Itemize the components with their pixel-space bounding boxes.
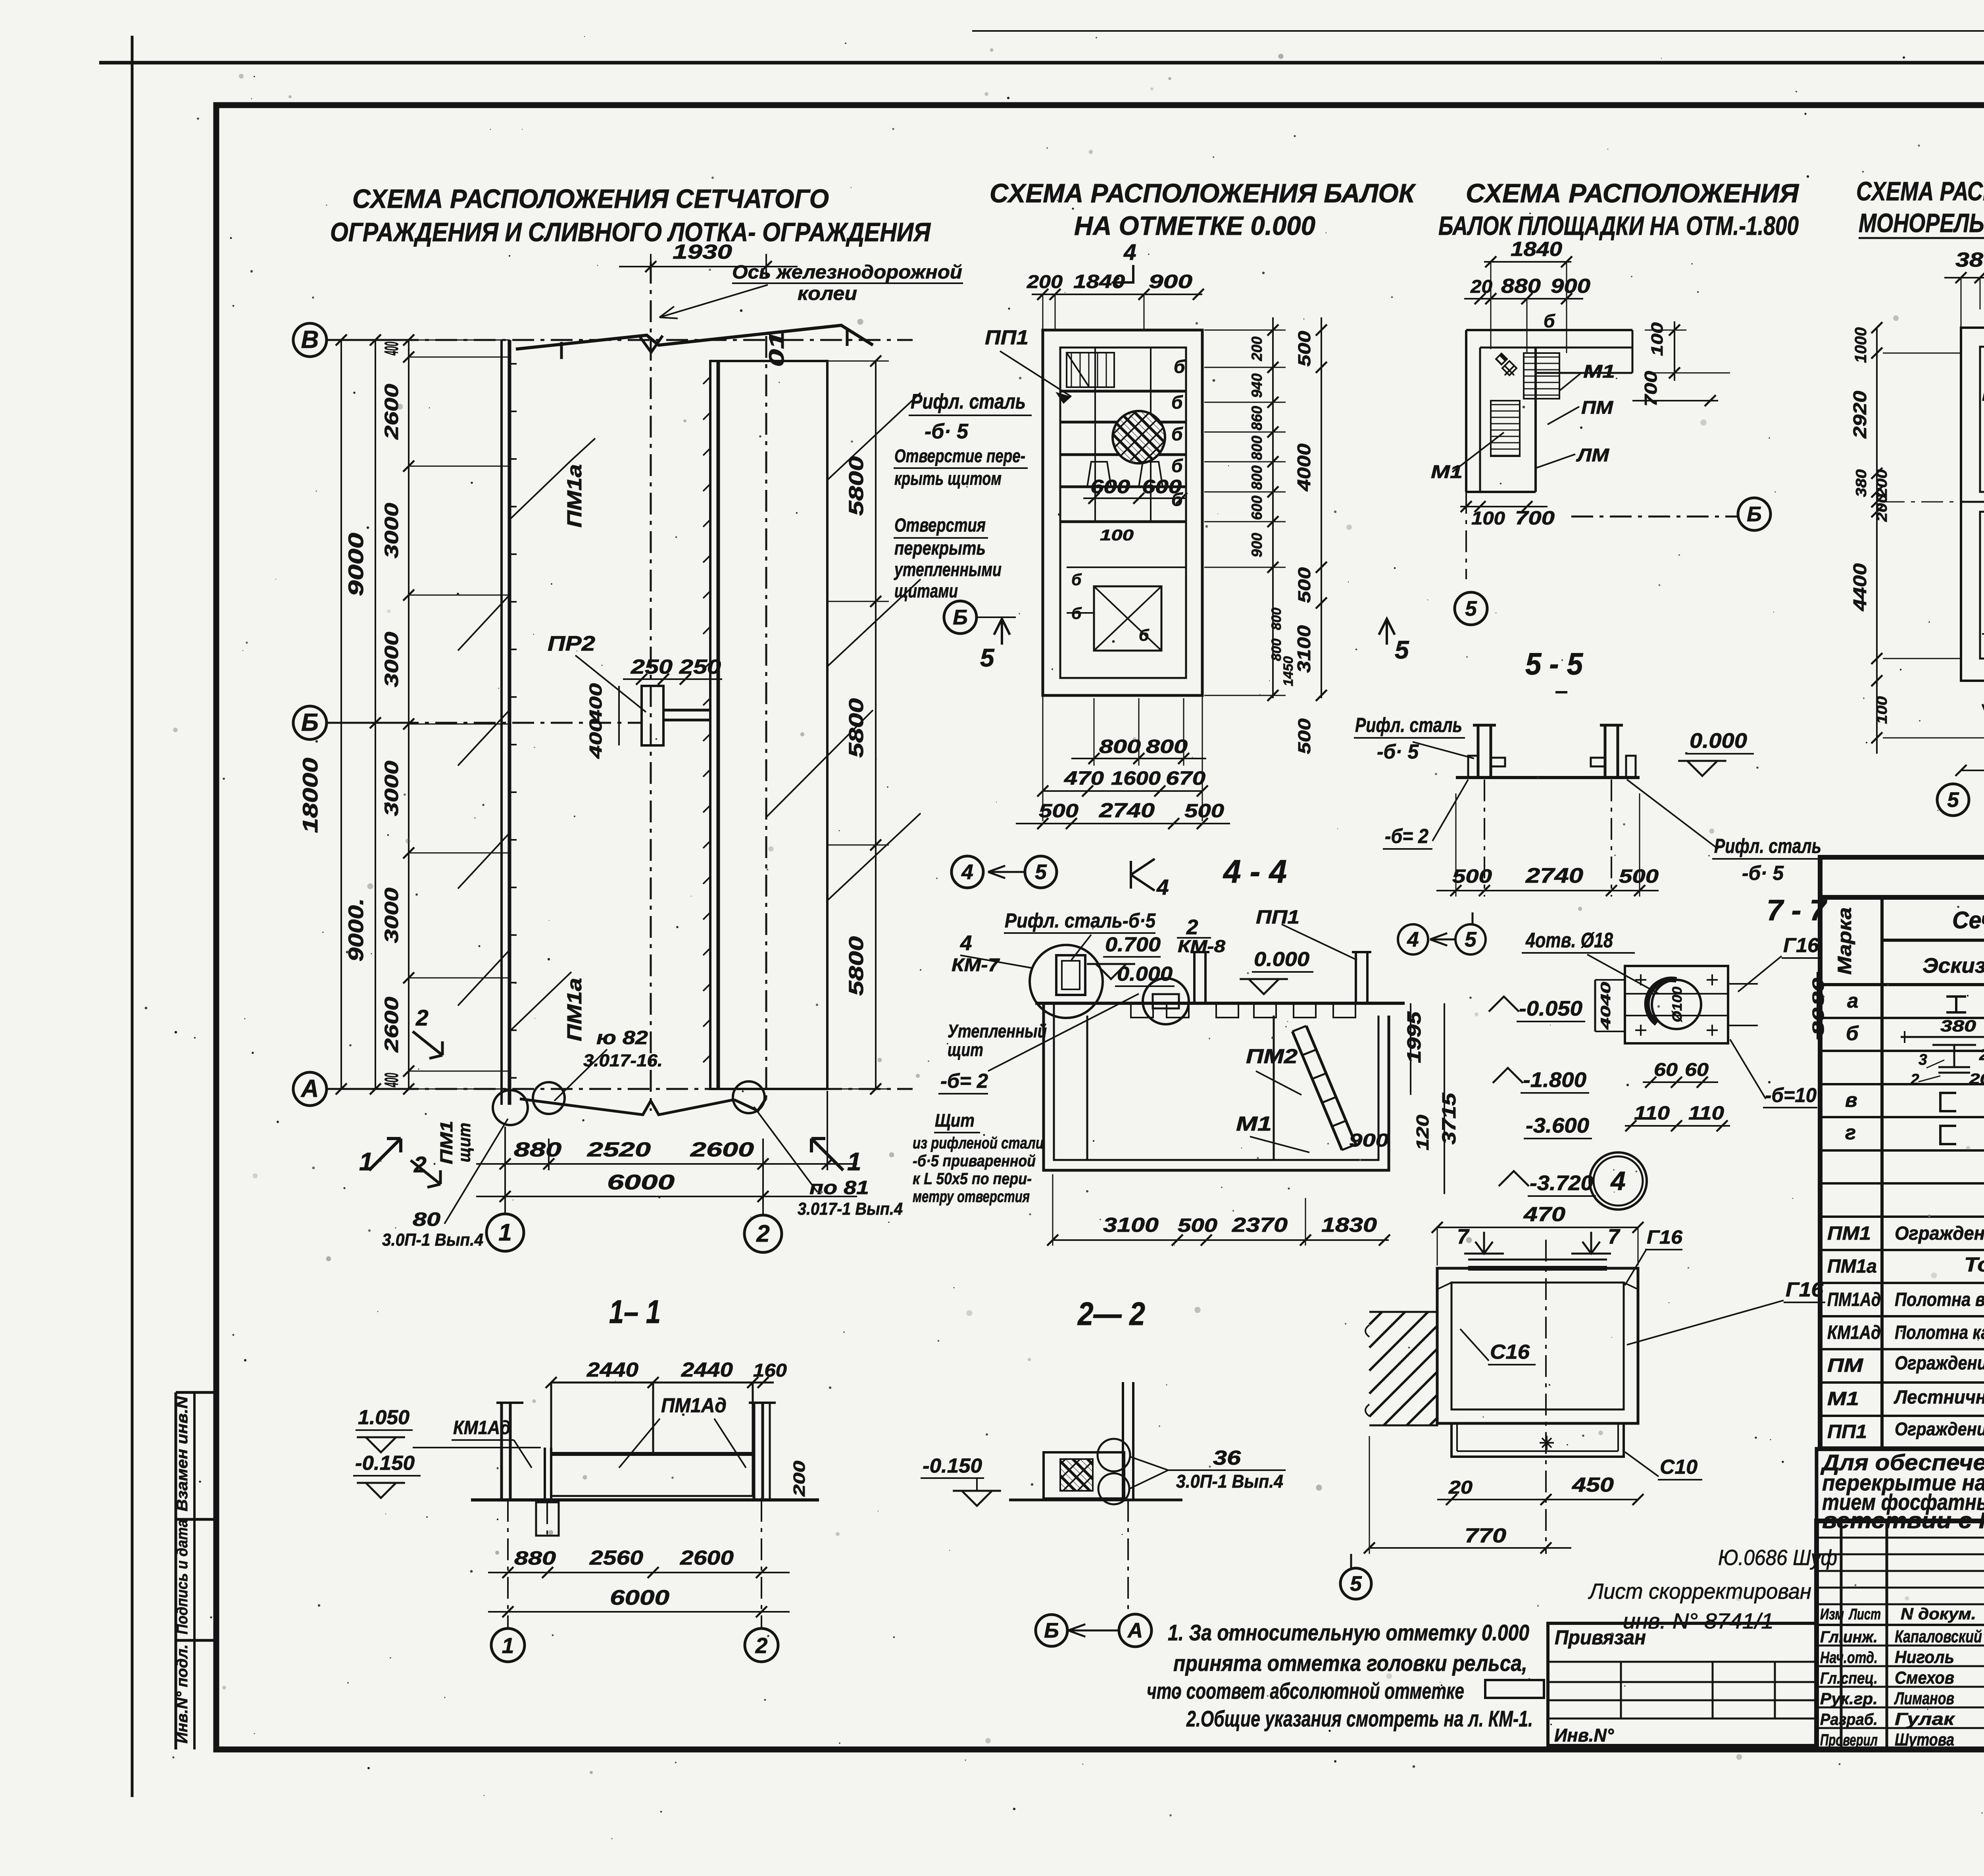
svg-text:200: 200 [1874, 494, 1890, 522]
svg-text:-б· 5: -б· 5 [1742, 862, 1784, 884]
floor line [1456, 776, 1640, 779]
svg-text:100: 100 [1874, 696, 1890, 724]
svg-text:1: 1 [502, 1633, 514, 1658]
svg-text:Эскиз: Эскиз [1922, 954, 1984, 977]
svg-text:СХЕМА РАСПОЛОЖЕНИЯ: СХЕМА РАСПОЛОЖЕНИЯ [1466, 179, 1799, 208]
svg-text:0.000: 0.000 [1690, 729, 1747, 753]
floor plate diamond [1502, 361, 1517, 375]
svg-text:670: 670 [1166, 768, 1205, 789]
section mark 2 upper [413, 1031, 442, 1058]
svg-text:ПМ1: ПМ1 [437, 1121, 456, 1164]
svg-text:Рифл. сталь: Рифл. сталь [1714, 835, 1821, 857]
svg-text:в: в [1845, 1089, 1857, 1111]
svg-text:2: 2 [413, 1152, 427, 1177]
svg-text:200: 200 [1027, 271, 1063, 292]
svg-text:110: 110 [1688, 1103, 1724, 1124]
svg-text:Шутова: Шутова [1895, 1730, 1954, 1749]
svg-text:200: 200 [790, 1461, 808, 1497]
svg-text:880: 880 [514, 1548, 556, 1569]
svg-text:450: 450 [1572, 1473, 1614, 1496]
svg-text:400: 400 [381, 342, 402, 355]
svg-text:1– 1: 1– 1 [609, 1293, 661, 1330]
small supports under opening [1087, 462, 1111, 487]
drawing frame [216, 105, 1984, 1749]
svg-text:Смехов: Смехов [1895, 1668, 1954, 1688]
svg-text:б: б [1544, 311, 1555, 331]
mesh fence line [500, 340, 503, 1105]
svg-text:2: 2 [756, 1220, 769, 1247]
svg-text:7: 7 [1457, 1225, 1470, 1248]
svg-text:-0.150: -0.150 [355, 1452, 415, 1474]
svg-text:ПП1: ПП1 [1827, 1421, 1867, 1442]
section 4-4 floor line [1035, 1002, 1405, 1005]
svg-text:Б: Б [1747, 503, 1762, 526]
svg-text:500: 500 [1619, 866, 1659, 887]
svg-text:2: 2 [415, 1005, 429, 1031]
svg-text:Г16: Г16 [1647, 1227, 1682, 1248]
svg-text:500: 500 [1295, 330, 1314, 367]
svg-text:60: 60 [1685, 1059, 1709, 1080]
section 2-2 post [1122, 1382, 1124, 1500]
svg-text:НА ОТМЕТКЕ 0.000: НА ОТМЕТКЕ 0.000 [1074, 211, 1315, 241]
svg-text:880: 880 [1501, 275, 1541, 297]
svg-text:4отв. Ø18: 4отв. Ø18 [1525, 929, 1613, 952]
circle 5 [1937, 784, 1969, 816]
small x mark [1540, 1436, 1554, 1450]
svg-text:2920: 2920 [1849, 391, 1870, 439]
svg-text:ОГРАЖДЕНИЯ И СЛИВНОГО ЛОТКА- О: ОГРАЖДЕНИЯ И СЛИВНОГО ЛОТКА- ОГРАЖДЕНИЯ [330, 217, 931, 247]
sketch in eskiz column [1901, 1036, 1984, 1038]
detail circle КМ-7 [1030, 945, 1103, 1018]
svg-text:Ограждение лестничного марша: Ограждение лестничного марша [1895, 1353, 1984, 1374]
axis 01 [765, 336, 767, 1098]
svg-text:Полотна ворот по серии 3.017: Полотна ворот по серии 3.017-1 вып.5; по… [1895, 1289, 1984, 1310]
svg-text:ПМ: ПМ [1827, 1355, 1863, 1376]
svg-text:0.000: 0.000 [1254, 948, 1309, 970]
svg-text:-3.600: -3.600 [1526, 1114, 1589, 1137]
svg-text:2440: 2440 [586, 1358, 638, 1381]
svg-text:500: 500 [1178, 1215, 1217, 1236]
svg-text:Инв.N° подл.: Инв.N° подл. [174, 1644, 191, 1744]
dim chain 9000+9000 [375, 340, 376, 1089]
svg-text:утепленными: утепленными [894, 559, 1002, 580]
svg-text:1830: 1830 [1321, 1214, 1377, 1236]
svg-text:Отверстие пере-: Отверстие пере- [894, 445, 1025, 466]
svg-text:Капаловский: Капаловский [1895, 1627, 1982, 1646]
svg-text:КМ-8: КМ-8 [1982, 386, 1984, 404]
svg-text:Отверстия: Отверстия [894, 515, 986, 536]
left base detail [1468, 756, 1478, 778]
svg-text:БАЛОК ПЛОЩАДКИ НА ОТМ.-1.80: БАЛОК ПЛОЩАДКИ НА ОТМ.-1.800 [1438, 211, 1799, 241]
svg-text:ПП1: ПП1 [1256, 907, 1300, 928]
svg-text:ПР2: ПР2 [548, 632, 595, 655]
svg-text:Привязан: Привязан [1555, 1626, 1646, 1649]
ПР2 detail [642, 686, 663, 745]
svg-text:110: 110 [1634, 1103, 1670, 1124]
svg-text:3000: 3000 [381, 632, 402, 687]
svg-text:600: 600 [1249, 495, 1265, 520]
svg-text:400: 400 [586, 718, 606, 759]
svg-text:100: 100 [1100, 527, 1134, 544]
svg-text:б: б [1171, 424, 1183, 444]
svg-text:5800: 5800 [845, 698, 867, 758]
bottom dims 880 2560 2600 [488, 1572, 790, 1573]
svg-text:М1: М1 [1583, 361, 1615, 382]
detail circle 2 [1143, 978, 1189, 1024]
plan outline [1961, 328, 1984, 681]
svg-text:2: 2 [1979, 1046, 1984, 1064]
circle 5 [1455, 592, 1487, 625]
svg-text:Нач.отд.: Нач.отд. [1820, 1648, 1878, 1667]
svg-text:МОНОРЕЛЬСА В НАСОСНОЙ: МОНОРЕЛЬСА В НАСОСНОЙ [1859, 208, 1984, 238]
svg-text:Утепленный: Утепленный [948, 1021, 1047, 1041]
column circle 1 [504, 1180, 506, 1214]
svg-text:1450: 1450 [1281, 656, 1296, 686]
svg-text:5: 5 [1465, 928, 1477, 951]
svg-text:4: 4 [1156, 875, 1169, 899]
beams grid [1060, 390, 1186, 393]
trough diagonals leaders [827, 393, 921, 480]
svg-text:-3.720: -3.720 [1530, 1171, 1593, 1195]
svg-text:Лестничный марш МЛХШ 60-18.: Лестничный марш МЛХШ 60-18.6 [1894, 1387, 1984, 1408]
svg-text:5 - 5: 5 - 5 [1525, 646, 1584, 681]
svg-text:3100: 3100 [1103, 1214, 1159, 1236]
svg-text:То же: То же [1964, 1253, 1984, 1276]
big circle 4 [1590, 1152, 1647, 1210]
svg-text:ПМ1Ад: ПМ1Ад [1827, 1289, 1881, 1310]
stairs in plan [1524, 353, 1559, 399]
svg-text:2.Общие указания смотреть н: 2.Общие указания смотреть на л. КМ-1. [1186, 1706, 1533, 1732]
bottom dims 880/2520/2600 [504, 1127, 506, 1180]
svg-text:Б: Б [301, 709, 319, 736]
svg-text:2: 2 [755, 1633, 768, 1658]
plan L-shape [1466, 329, 1632, 331]
pit walls [1044, 1003, 1389, 1170]
circle Б with 5 mark (left of plan 0.000) [944, 601, 977, 634]
svg-text:2520: 2520 [587, 1138, 651, 1161]
svg-text:1600: 1600 [1111, 768, 1161, 789]
svg-text:Рук.гр.: Рук.гр. [1820, 1690, 1878, 1708]
svg-text:2: 2 [1186, 916, 1198, 939]
svg-text:Инв.N°: Инв.N° [1554, 1725, 1614, 1745]
svg-text:800: 800 [1269, 608, 1284, 630]
svg-text:ПМ1а: ПМ1а [563, 464, 586, 528]
wavy breaks on wall [1365, 1325, 1369, 1416]
svg-text:А: А [300, 1075, 319, 1102]
svg-text:Сечение: Сечение [1952, 907, 1984, 933]
ground line [471, 1498, 819, 1502]
svg-text:Ограждение площадки по серии: Ограждение площадки по серии 1.450.3-3.8… [1895, 1419, 1984, 1439]
svg-text:0.000: 0.000 [1117, 962, 1173, 985]
dim chain 400/2600/3000 [408, 340, 409, 1089]
svg-text:100: 100 [1648, 322, 1666, 356]
svg-text:Рифл. сталь: Рифл. сталь [911, 390, 1026, 413]
svg-text:В: В [301, 326, 319, 353]
svg-text:б: б [1171, 455, 1183, 476]
svg-text:2600: 2600 [381, 384, 402, 440]
section mark 2 lower [411, 1160, 440, 1187]
svg-text:60: 60 [1654, 1059, 1678, 1080]
svg-text:КМ1Ад: КМ1Ад [453, 1417, 511, 1438]
svg-text:400: 400 [586, 683, 606, 723]
svg-text:-0.150: -0.150 [923, 1454, 982, 1477]
svg-text:ПМ1а: ПМ1а [563, 978, 586, 1041]
bottom dims 500 2740 500 [1455, 793, 1457, 897]
svg-text:9000: 9000 [344, 533, 368, 596]
svg-text:Г16: Г16 [1783, 934, 1819, 956]
svg-text:800: 800 [1146, 736, 1188, 757]
left margin strip [175, 1392, 177, 1749]
svg-text:36: 36 [1213, 1446, 1241, 1469]
slivnoy lotok (trough) right tall structure [710, 361, 827, 1089]
svg-text:7: 7 [1608, 1225, 1621, 1248]
svg-text:900: 900 [1149, 271, 1192, 292]
bolt crosses [1635, 974, 1646, 985]
svg-text:500: 500 [1295, 567, 1314, 603]
svg-text:5: 5 [1947, 788, 1959, 812]
svg-text:2560: 2560 [589, 1546, 643, 1569]
svg-text:Б: Б [953, 606, 968, 629]
svg-text:5: 5 [1465, 597, 1477, 620]
fence band [551, 1452, 753, 1456]
svg-text:5: 5 [1395, 636, 1409, 664]
bottom tray [1451, 1423, 1624, 1457]
svg-text:-б=10: -б=10 [1765, 1084, 1817, 1106]
svg-text:СХЕМА РАСПОЛОЖЕНИЯ СЕТЧАТОГО: СХЕМА РАСПОЛОЖЕНИЯ СЕТЧАТОГО [352, 184, 829, 214]
bottom dims 3100/500/2370/1830 [1053, 1239, 1389, 1241]
svg-text:0.700: 0.700 [1105, 933, 1161, 956]
left post pair КМ1Ад [500, 1403, 503, 1498]
duct outer square [1437, 1268, 1638, 1423]
svg-text:3000: 3000 [381, 887, 402, 943]
svg-text:б: б [1071, 604, 1082, 622]
svg-text:20: 20 [1448, 1477, 1473, 1498]
svg-text:3: 3 [1919, 1051, 1927, 1068]
svg-text:2600: 2600 [690, 1138, 754, 1161]
svg-text:2600: 2600 [680, 1546, 734, 1569]
fence gates at bottom [493, 1090, 528, 1125]
hatch diamond symbol [1496, 353, 1507, 365]
svg-text:Лист: Лист [1848, 1606, 1881, 1623]
svg-text:что соответ абсолютной отме: что соответ абсолютной отметке [1147, 1678, 1464, 1704]
svg-text:Марка: Марка [1834, 907, 1855, 975]
svg-text:500: 500 [1295, 718, 1314, 754]
svg-text:Изм: Изм [1820, 1606, 1844, 1623]
dim chain 18000 [340, 340, 342, 1089]
svg-text:2: 2 [1910, 1071, 1919, 1088]
7 section arrows [1464, 1232, 1504, 1254]
svg-text:Б: Б [1044, 1619, 1059, 1642]
svg-text:Рифл. сталь: Рифл. сталь [1355, 714, 1462, 736]
fire note box [1817, 1449, 1984, 1521]
svg-text:М1: М1 [1236, 1112, 1272, 1135]
svg-text:40: 40 [1598, 982, 1613, 1006]
svg-text:ЛМ: ЛМ [1576, 445, 1610, 465]
svg-text:3.017-1 Вып.4: 3.017-1 Вып.4 [798, 1199, 903, 1219]
svg-text:Лиманов: Лиманов [1894, 1689, 1954, 1708]
sheet trim border [131, 36, 134, 1797]
svg-text:3.0П-1 Вып.4: 3.0П-1 Вып.4 [382, 1230, 483, 1250]
svg-text:2740: 2740 [1525, 864, 1583, 887]
svg-text:6000: 6000 [607, 1171, 675, 1194]
right post pair [753, 1403, 756, 1498]
svg-text:2370: 2370 [1232, 1214, 1288, 1236]
svg-text:120: 120 [1413, 1114, 1432, 1150]
svg-text:2600: 2600 [381, 997, 402, 1053]
svg-text:Подпись и дата: Подпись и дата [174, 1519, 191, 1634]
svg-text:5: 5 [1350, 1572, 1362, 1596]
svg-text:а: а [1847, 989, 1858, 1012]
svg-text:ю 82: ю 82 [596, 1027, 648, 1048]
svg-text:500: 500 [1452, 866, 1492, 887]
svg-text:метру отверстия: метру отверстия [913, 1187, 1030, 1206]
svg-text:М1: М1 [1431, 461, 1463, 482]
svg-text:г: г [1845, 1121, 1856, 1144]
svg-text:5800: 5800 [845, 456, 867, 516]
svg-text:-1.800: -1.800 [1523, 1068, 1586, 1092]
railway V mark [640, 336, 663, 352]
svg-text:Гл.инж.: Гл.инж. [1820, 1628, 1878, 1646]
svg-text:1930: 1930 [673, 240, 732, 263]
svg-text:Ю.0686 Шуф: Ю.0686 Шуф [1718, 1545, 1837, 1570]
dash-dot to circle Б [1571, 516, 1738, 518]
svg-text:б: б [1139, 626, 1150, 644]
section mark 1 left [369, 1139, 401, 1170]
svg-text:б: б [1071, 570, 1082, 589]
svg-text:80: 80 [413, 1209, 440, 1230]
dim 5800 column right [875, 361, 877, 1089]
svg-text:по 81: по 81 [809, 1177, 869, 1198]
svg-text:б: б [1846, 1022, 1859, 1045]
svg-text:КМ1Ад: КМ1Ад [1827, 1322, 1881, 1343]
svg-text:-б· 5: -б· 5 [925, 420, 969, 443]
grid line А [293, 1072, 327, 1106]
svg-text:б: б [1171, 392, 1183, 413]
svg-text:470: 470 [1064, 768, 1104, 789]
svg-text:1: 1 [847, 1147, 861, 1176]
svg-text:б: б [1174, 356, 1186, 377]
circles 4,5 above section [1398, 924, 1428, 954]
svg-text:900: 900 [1249, 533, 1265, 557]
svg-text:2440: 2440 [681, 1358, 733, 1381]
section 5-5 left column [1477, 725, 1480, 778]
svg-text:5: 5 [980, 643, 995, 672]
svg-text:3100: 3100 [1294, 625, 1314, 673]
svg-text:щит: щит [455, 1123, 474, 1162]
svg-text:4: 4 [960, 931, 972, 955]
7-7 plate [1625, 966, 1728, 1043]
svg-text:1995: 1995 [1404, 1011, 1425, 1063]
svg-text:200: 200 [1969, 1071, 1984, 1087]
stair top-left [1067, 353, 1114, 387]
svg-text:Ограждение предприятия по се: Ограждение предприятия по серии 3.017-1 … [1895, 1223, 1984, 1244]
svg-text:500: 500 [1039, 801, 1079, 822]
posts on 4-4 floor [1193, 952, 1196, 1003]
2-2 panel with hatch [1044, 1452, 1124, 1499]
svg-text:600: 600 [1090, 476, 1130, 497]
svg-text:4: 4 [1610, 1166, 1625, 1196]
svg-text:Полотна калитки по серии 3.: Полотна калитки по серии 3.017-1 вып.5; … [1895, 1322, 1984, 1343]
svg-text:800: 800 [1249, 436, 1265, 460]
svg-text:колеи: колеи [798, 283, 857, 304]
title block outer [1817, 1521, 1984, 1749]
svg-text:4: 4 [961, 860, 973, 884]
roof-like top chord [516, 325, 873, 349]
svg-text:770: 770 [1465, 1524, 1506, 1547]
circles 1 2 [491, 1628, 525, 1662]
svg-text:щитами: щитами [894, 581, 958, 602]
fence upper rails [550, 1383, 552, 1454]
left dim chain [1876, 328, 1878, 754]
circles Б-А bottom [1036, 1615, 1067, 1646]
circles 4,5 bottom of plan [952, 856, 983, 888]
svg-text:-б·5 приваренной: -б·5 приваренной [913, 1152, 1036, 1170]
svg-text:1: 1 [359, 1147, 373, 1176]
svg-text:крыть щитом: крыть щитом [894, 468, 1002, 489]
svg-text:из рифленой стали: из рифленой стали [913, 1134, 1044, 1152]
svg-text:800: 800 [1249, 465, 1265, 490]
svg-text:200: 200 [1874, 469, 1890, 498]
svg-text:-б= 2: -б= 2 [940, 1070, 988, 1092]
lower pit with X bracing [1094, 586, 1161, 651]
svg-text:С16: С16 [1490, 1340, 1530, 1363]
svg-text:Щит: Щит [935, 1110, 975, 1131]
svg-text:600: 600 [1142, 476, 1182, 497]
svg-text:Лист скорректирован: Лист скорректирован [1588, 1579, 1811, 1603]
svg-text:Гулак: Гулак [1895, 1709, 1955, 1729]
svg-text:ПМ1Ад: ПМ1Ад [661, 1394, 727, 1417]
svg-text:ПМ2: ПМ2 [1246, 1045, 1298, 1068]
label ПМ1а bottom [509, 972, 571, 1031]
svg-text:Ниголь: Ниголь [1895, 1648, 1954, 1667]
svg-text:Взамен инв.N: Взамен инв.N [174, 1396, 191, 1511]
circle 5 under duct [1340, 1568, 1371, 1599]
svg-text:6000: 6000 [610, 1586, 669, 1609]
right column [1604, 725, 1607, 778]
svg-text:380: 380 [1955, 248, 1984, 271]
svg-text:4000: 4000 [1294, 444, 1314, 492]
plan outer walls [1043, 330, 1202, 695]
svg-text:ПМ1а: ПМ1а [1827, 1256, 1877, 1277]
buried dashed post [536, 1502, 559, 1536]
svg-text:-0.050: -0.050 [1519, 997, 1582, 1020]
2-2 axis to circle А [1127, 1500, 1129, 1613]
svg-text:1000: 1000 [1851, 327, 1870, 363]
top cover plate [1468, 1266, 1607, 1271]
center axis [1545, 1240, 1547, 1554]
column circle 2 [762, 1170, 764, 1214]
svg-text:к L 50х5 по пери-: к L 50х5 по пери- [913, 1169, 1032, 1188]
railway axis [650, 262, 652, 1111]
svg-text:3000: 3000 [381, 503, 402, 558]
ladder ПМ2/М1 [1292, 1031, 1342, 1150]
label ПМ1а top [509, 460, 571, 520]
svg-text:900: 900 [1349, 1130, 1389, 1150]
svg-text:380: 380 [1940, 1017, 1976, 1035]
svg-text:СХЕМА РАСПОЛОЖЕНИЯ МЕТАЛЛОКО: СХЕМА РАСПОЛОЖЕНИЯ МЕТАЛЛОКОНСТРУКЦИЙ [1856, 176, 1984, 206]
svg-text:ПМ: ПМ [1581, 397, 1614, 418]
svg-text:-б= 2: -б= 2 [1385, 825, 1428, 847]
svg-text:470: 470 [1523, 1203, 1565, 1225]
svg-text:4: 4 [1123, 240, 1136, 265]
svg-text:20: 20 [1470, 276, 1493, 297]
2-2 detail circles [1098, 1439, 1130, 1471]
svg-text:3000: 3000 [381, 760, 402, 816]
vedomost table header [1820, 857, 1984, 897]
section mark 1 right [811, 1139, 843, 1170]
svg-text:3715: 3715 [1439, 1092, 1460, 1144]
grid line Б [293, 706, 327, 739]
